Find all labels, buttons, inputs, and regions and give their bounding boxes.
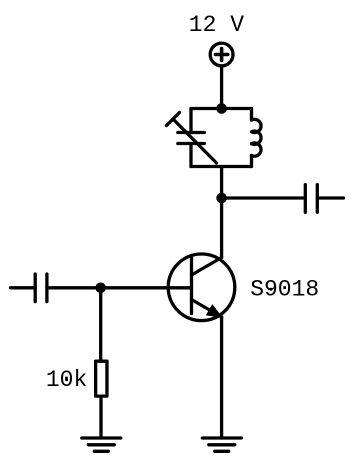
wire base node down to resistor bbox=[99, 288, 102, 360]
wire supply to tank top bbox=[220, 68, 223, 109]
ground (below emitter) bbox=[202, 436, 241, 439]
wire emitter to ground bbox=[220, 317, 223, 438]
svg-text:12 V: 12 V bbox=[189, 12, 244, 38]
capacitor C3 (input coupling) bbox=[34, 274, 37, 302]
transistor Q1 circle bbox=[168, 254, 235, 321]
wire node to output capacitor bbox=[222, 196, 306, 199]
node junction at tank top bbox=[216, 103, 227, 114]
variable capacitor C1 (trimmer, left branch of tank) bbox=[189, 109, 192, 133]
inductor L1 (right branch of tank) bbox=[250, 109, 253, 121]
ground (below resistor) bbox=[82, 436, 121, 439]
resistor R1 10k bbox=[96, 361, 107, 396]
transistor Q1 collector diagonal bbox=[192, 258, 222, 276]
wire tank top edge bbox=[191, 107, 252, 110]
wire tank bottom to collector node bbox=[220, 167, 223, 199]
transistor Q1 emitter arrowhead bbox=[207, 305, 222, 317]
wire collector node down to transistor bbox=[220, 198, 223, 258]
node junction at base bbox=[95, 283, 106, 294]
power source V1 (+ terminal circle) bbox=[210, 43, 233, 66]
wire output stub bbox=[317, 196, 343, 199]
wire resistor to ground bbox=[99, 398, 102, 439]
wire tank bottom edge bbox=[191, 165, 252, 168]
svg-text:S9018: S9018 bbox=[250, 277, 319, 303]
wire input stub bbox=[11, 286, 36, 289]
capacitor C2 (output coupling) bbox=[304, 185, 307, 213]
node junction at collector bbox=[216, 193, 227, 204]
transistor Q1 emitter diagonal bbox=[192, 300, 222, 318]
wire input cap to base bbox=[47, 286, 192, 289]
transistor Q1 base bar bbox=[190, 258, 193, 314]
